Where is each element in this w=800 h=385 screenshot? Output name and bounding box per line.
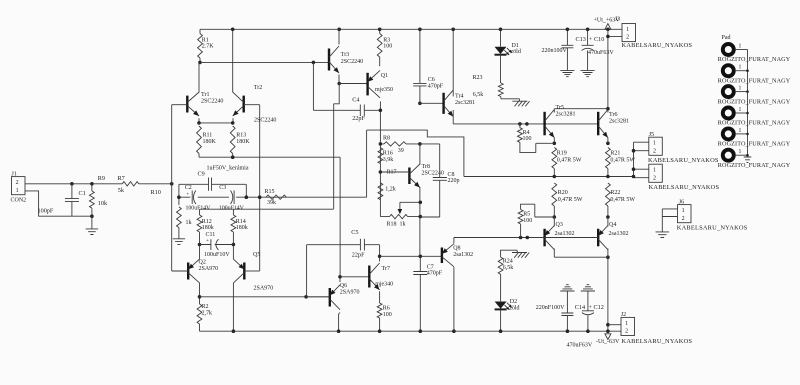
svg-text:CON2: CON2 [11,198,27,204]
svg-text:100: 100 [383,44,392,50]
svg-text:R10: R10 [151,189,161,196]
svg-text:J5: J5 [649,132,654,138]
svg-text:2sa1302: 2sa1302 [609,231,629,237]
transistor Q8 2sa1302 [441,248,443,264]
wire Tr8 collector [419,144,421,165]
transistor Q3 2sa1302 [543,229,545,247]
svg-text:10k: 10k [98,200,108,207]
svg-text:R12: R12 [202,219,212,225]
wire input vertical [171,105,173,271]
wire Tr6 collector [607,109,609,113]
junction R3 rail [378,28,382,32]
junction input node [170,182,174,186]
svg-text:J1: J1 [12,172,17,178]
svg-text:KABELSARU_NYAKOS: KABELSARU_NYAKOS [622,42,693,49]
wire Q3 collector [553,249,555,258]
capacitor C5 22pF [307,239,380,256]
svg-text:1: 1 [653,168,656,174]
capacitor C3 100uF14V [233,191,235,205]
svg-text:Tr6: Tr6 [609,112,617,118]
svg-text:Pad: Pad [722,35,731,41]
wire output to connectors [634,142,649,178]
svg-text:+ C10: + C10 [589,36,604,43]
pad P5 ROGZITO_FURAT_NAGY [723,128,734,139]
resistor R19 0.47R [552,148,557,177]
wire Tr4 collector to rail [452,29,454,96]
svg-text:220nF100V: 220nF100V [536,305,565,311]
svg-text:0,47R 5W: 0,47R 5W [610,197,635,203]
svg-text:R24: R24 [503,259,513,265]
junction R1 bottom [198,61,202,65]
resistor R1 2.7K [198,29,203,62]
svg-text:R5: R5 [523,212,530,218]
resistor R15 39k [266,195,286,199]
wire +63V top rail [200,28,622,30]
svg-text:180k: 180k [236,225,248,231]
svg-text:2SA970: 2SA970 [340,289,360,295]
svg-text:1uF50V_kerámia: 1uF50V_kerámia [207,166,249,172]
svg-text:R9: R9 [98,175,105,182]
svg-text:Tr3: Tr3 [341,52,349,58]
junction 10k top [90,182,94,186]
resistor R9 10k [90,184,95,216]
capacitor C13 220n100V [561,30,573,71]
svg-text:Q3: Q3 [556,222,563,228]
svg-text:D1: D1 [512,43,519,49]
junction pot right [419,215,423,219]
wire Tr7 base [340,276,369,278]
svg-text:R11: R11 [203,133,213,139]
junction base line a [518,122,522,126]
svg-text:1,2k: 1,2k [385,187,396,193]
resistor R11 180K [197,126,202,157]
svg-text:R16: R16 [383,151,393,157]
svg-text:3,9k: 3,9k [383,157,394,163]
svg-text:2SA970: 2SA970 [254,286,274,292]
svg-text:Q5: Q5 [253,252,260,258]
svg-text:C6: C6 [428,77,435,83]
junction lower base b [526,236,530,240]
svg-text:mje350: mje350 [375,87,393,93]
trimmer R18 1k [380,214,420,218]
wire Q8 collector to -rail [453,267,455,331]
resistor R24 6.5k [498,250,517,301]
transistor Q5 2SA970 [233,259,244,283]
capacitor C9 1uF50V [179,178,246,198]
resistor R16 3.9k [378,148,383,164]
svg-text:R23: R23 [473,75,483,81]
wire feedback line [179,196,367,198]
transistor Tr1 [186,96,188,113]
svg-text:100uF10V: 100uF10V [204,252,230,258]
wire base drive line lower [454,237,598,239]
junction 10k bottom [90,214,94,218]
svg-text:22pF: 22pF [352,251,365,258]
junction R13 top [231,121,235,125]
resistor R12 180k [197,209,202,244]
resistor R22 0.47R [606,183,611,217]
svg-text:zöld: zöld [509,305,519,311]
svg-text:+: + [206,238,209,244]
wire Q2 collector [199,283,201,297]
diode D2 LED [495,302,507,309]
junction Tr4 base [418,102,422,106]
svg-text:ROGZITO_FURAT_NAGY: ROGZITO_FURAT_NAGY [718,120,791,127]
junction R2 top [198,295,202,299]
junction Tr3 emitter [337,82,341,86]
connector J6 [678,205,692,223]
svg-text:C5: C5 [351,229,358,236]
svg-text:Tr7: Tr7 [382,266,390,272]
svg-text:C1: C1 [79,190,86,197]
svg-text:1: 1 [739,128,742,134]
svg-text:ROGZITO_FURAT_NAGY: ROGZITO_FURAT_NAGY [718,98,791,105]
junction Q6 collector rail [337,329,341,333]
svg-text:1: 1 [16,188,19,194]
svg-text:470pF: 470pF [427,271,443,277]
capacitor C14 220nF100V [561,291,573,331]
wire Tr7 collector [379,256,381,261]
svg-text:2: 2 [653,148,656,154]
ground input [91,216,93,228]
wire J3 pin2 [608,29,622,108]
wire Q5 emitter [232,245,234,260]
wire Tr6 emitter [607,138,609,144]
svg-text:2sc3281: 2sc3281 [455,100,475,106]
svg-text:1: 1 [739,107,742,113]
junction conn b [632,167,636,171]
resistor R17 1.2k [378,183,383,200]
connector J4 [649,164,663,182]
junction Tr3 collector rail [337,28,341,32]
wire Tr1 collector node to Tr3 base [200,61,329,63]
svg-text:5k: 5k [118,187,125,194]
junction +Ut [606,28,610,32]
svg-text:2sa1302: 2sa1302 [555,231,575,237]
svg-text:R15: R15 [265,189,275,195]
transistor Tr4 2sc3281 [442,93,444,114]
junction Q4 emitter [606,215,610,219]
junction R8 right [418,142,422,146]
junction Tr5 emitter [553,142,557,146]
wire pad bus [747,50,749,156]
ground shunt [173,239,185,245]
wire Q1 base [339,83,367,85]
resistor R23 6.5k [498,83,519,101]
wire Tr4 emitter to base line [452,110,454,124]
junction C4 branch [312,61,316,65]
junction lower base a [519,236,523,240]
svg-text:0,47R 5W: 0,47R 5W [558,197,583,203]
junction conn c [632,175,636,179]
svg-text:R17: R17 [387,170,397,176]
transistor Tr3 [328,49,330,71]
junction Tr6 emitter [606,142,610,146]
connector J3 [622,24,636,42]
svg-text:2: 2 [682,216,685,222]
junction C9 right [245,195,249,199]
junction Q3 emitter [553,215,557,219]
svg-text:R6: R6 [383,306,390,312]
junction Q8 collector rail [452,329,456,333]
capacitor C8 220p [420,144,447,217]
svg-text:Q8: Q8 [453,246,460,252]
svg-text:6,5k: 6,5k [503,265,514,271]
svg-text:2: 2 [653,175,656,181]
wire Tr3 emitter jog to lower load line [334,84,340,209]
wire Tr2 collector to rail [232,29,234,92]
transistor Tr2 [233,92,244,116]
capacitor C4 22pF [313,62,380,116]
resistor R7 5k [122,182,139,186]
svg-text:R21: R21 [610,151,620,157]
svg-text:6,5k: 6,5k [473,92,484,98]
svg-text:180K: 180K [203,139,217,145]
wire lower collector line to Q6 [200,296,330,298]
resistor R20 0.47R [552,183,557,217]
svg-text:100uF14V: 100uF14V [186,205,212,211]
resistor R13 180K [230,126,235,157]
junction Tr2 coll rail [231,28,235,32]
svg-text:+: + [186,191,189,197]
junction Tr4 rail [451,28,455,32]
svg-text:22pF: 22pF [352,115,365,122]
svg-text:Q1: Q1 [381,73,388,79]
svg-text:R4: R4 [523,130,530,136]
wire VAS to output node [367,130,464,176]
svg-text:R1: R1 [202,37,209,43]
svg-text:2SC2240: 2SC2240 [422,171,444,177]
junction C1 top [70,182,74,186]
svg-text:2SC2240: 2SC2240 [341,59,363,65]
diode D1 LED [500,29,502,46]
capacitor C6 470pF [413,29,426,103]
svg-text:39: 39 [398,148,404,154]
capacitor C2 100uF14V [191,191,193,205]
junction C13 rail [566,28,570,32]
resistor R5 100 [518,204,554,237]
wire Tr5 emitter [553,138,555,144]
junction R6 rail [378,329,382,333]
svg-text:C14: C14 [575,304,585,311]
svg-text:220p: 220p [448,178,460,184]
wire Q8 emitter up [453,238,455,244]
svg-text:2SC2240: 2SC2240 [201,98,223,104]
junction C7 rail [419,329,423,333]
junction C12 rail [586,329,590,333]
resistor R21 0.47R [606,148,611,177]
junction C14 rail [566,329,570,333]
pad P6 ROGZITO_FURAT_NAGY [723,150,734,161]
pad P2 ROGZITO_FURAT_NAGY [723,65,734,76]
wire lower load line [200,208,334,210]
junction C7 top [419,254,423,258]
junction -rail J2 [606,329,610,333]
svg-text:Q6: Q6 [340,283,347,289]
svg-text:100uF14V: 100uF14V [219,205,245,211]
svg-text:Tr1: Tr1 [201,92,209,98]
junction R14 bottom [232,243,236,247]
transistor Q1 mje350 [366,73,368,96]
wire collectors top line [554,108,608,110]
ground J6 [656,232,670,238]
pad P1 ROGZITO_FURAT_NAGY [723,44,734,55]
svg-text:1: 1 [682,208,685,214]
junction pad bus [746,133,749,136]
junction J3 pin2 [606,35,610,39]
connector J5 [649,137,663,155]
svg-text:1k: 1k [186,220,192,226]
svg-text:R8: R8 [383,136,390,142]
junction R21 R22 [606,175,610,179]
svg-text:ROGZITO_FURAT_NAGY: ROGZITO_FURAT_NAGY [718,162,791,169]
resistor R6 100 [377,291,382,331]
svg-text:R22: R22 [610,190,620,196]
wire feedback takeoff [366,130,368,197]
wire collectors bottom line [554,256,608,258]
transistor Tr8 [408,168,410,185]
svg-text:Tr4: Tr4 [455,94,463,100]
svg-text:C9: C9 [198,171,205,178]
svg-text:KABELSARU_NYAKOS: KABELSARU_NYAKOS [649,184,720,191]
svg-text:KABELSARU_NYAKOS: KABELSARU_NYAKOS [648,157,719,164]
svg-text:ROGZITO_FURAT_NAGY: ROGZITO_FURAT_NAGY [718,56,791,63]
pad P4 ROGZITO_FURAT_NAGY [723,108,734,119]
svg-text:KABELSARU_NYAKOS: KABELSARU_NYAKOS [677,224,748,231]
ground R24 chassis [512,253,529,258]
junction pad bus [746,90,749,93]
junction R8 left [379,142,383,146]
junction shunt node [177,195,181,199]
junction feedback bases [258,195,262,199]
svg-text:J3: J3 [615,16,620,22]
resistor R14 180k [231,209,236,244]
svg-text:R13: R13 [236,133,246,139]
svg-text:2sc3281: 2sc3281 [556,111,576,117]
svg-text:0,47R 5W: 0,47R 5W [557,157,582,163]
svg-text:470pF: 470pF [428,84,444,90]
svg-text:D2: D2 [510,299,517,305]
svg-text:0,47R 5W: 0,47R 5W [610,157,635,163]
svg-text:-Ut_-63V: -Ut_-63V [596,339,620,345]
svg-text:J6: J6 [679,200,684,206]
wire Q6 emitter [339,277,341,282]
wire C5 to lower node [306,245,308,297]
svg-text:470uF63V: 470uF63V [567,343,593,349]
svg-text:Q2: Q2 [199,260,206,266]
resistor R3 100 [377,29,382,66]
wire Tr3 emitter node [338,75,340,84]
connector J1 [12,177,26,195]
svg-text:R14: R14 [236,219,246,225]
svg-text:J2: J2 [621,312,626,318]
svg-text:C13: C13 [576,36,586,43]
junction Tr7 collector [378,254,382,258]
junction Tr8 base tap [379,170,383,174]
svg-text:2,7k: 2,7k [202,310,213,316]
junction C10 rail [586,28,590,32]
wire output line [464,176,634,178]
svg-text:Q4: Q4 [609,222,616,228]
svg-text:R20: R20 [558,190,568,196]
junction base line b [525,122,529,126]
wire -63V bottom rail [200,330,622,332]
pad P3 ROGZITO_FURAT_NAGY [723,86,734,97]
junction conn a [632,149,636,153]
svg-text:ROGZITO_FURAT_NAGY: ROGZITO_FURAT_NAGY [718,77,791,84]
svg-text:470uF63V: 470uF63V [588,50,614,56]
power +Ut +63V arrow [605,24,611,30]
svg-text:100: 100 [383,312,392,318]
svg-text:2: 2 [625,329,628,335]
wire Tr4 base [420,102,444,104]
wire Q5 collector to -rail [232,283,234,331]
svg-text:2SA970: 2SA970 [199,266,219,272]
svg-text:2sa1302: 2sa1302 [453,252,473,258]
svg-text:C3: C3 [219,185,226,191]
junction R12 bottom [198,243,202,247]
svg-text:2: 2 [16,180,19,186]
transistor Q6 2SA970 [329,288,331,307]
capacitor C1 [65,184,79,216]
junction D2 rail [499,329,503,333]
junction R19 R20 [553,175,557,179]
svg-text:R2: R2 [202,304,209,310]
svg-text:180k: 180k [202,225,214,231]
svg-text:KABELSARU_NYAKOS: KABELSARU_NYAKOS [622,338,693,345]
svg-text:2: 2 [626,35,629,41]
wire lower drive node line [380,255,442,257]
svg-text:1: 1 [739,86,742,92]
svg-text:C2: C2 [185,185,192,191]
resistor R8 39 [380,142,420,146]
svg-text:2SC2240: 2SC2240 [254,118,276,124]
svg-text:1: 1 [625,321,628,327]
capacitor C7 470pF [413,256,427,331]
junction Tr7 base node [338,275,342,279]
wire upper tail to Q6 emitter node [339,157,341,277]
junction R11 top [197,121,201,125]
svg-text:R7: R7 [118,175,125,182]
junction Tr6 collector [606,107,610,111]
junction Q4 collector [606,255,610,259]
wire Q4 collector [607,249,609,258]
wire lower collectors to -rail [607,257,609,331]
wire emitters upper pair [199,118,233,123]
wire Q2 emitter [199,245,201,260]
svg-text:1: 1 [653,141,656,147]
wire Q1 collector chain [379,101,381,216]
transistor Tr5 2sc3281 [543,112,545,136]
transistor Tr7 mje340 [368,266,370,288]
svg-text:Tr5: Tr5 [556,105,564,111]
svg-text:1: 1 [626,27,629,33]
junction wiper [419,201,423,205]
transistor Tr6 2sc3281 [597,112,599,136]
svg-text:R18: R18 [387,221,397,227]
svg-text:2.7K: 2.7K [202,44,215,50]
svg-text:2sc3281: 2sc3281 [609,118,629,124]
junction J2 pin1 [606,323,610,327]
svg-text:100pF: 100pF [38,207,54,214]
transistor Q4 2sa1302 [597,229,599,247]
svg-text:Tr2: Tr2 [254,85,262,91]
svg-text:mje340: mje340 [375,281,393,287]
wire tail line upper [199,156,340,158]
wire J2 pin1 [608,324,621,326]
svg-text:ROGZITO_FURAT_NAGY: ROGZITO_FURAT_NAGY [718,141,791,148]
junction pad bus [746,112,749,115]
